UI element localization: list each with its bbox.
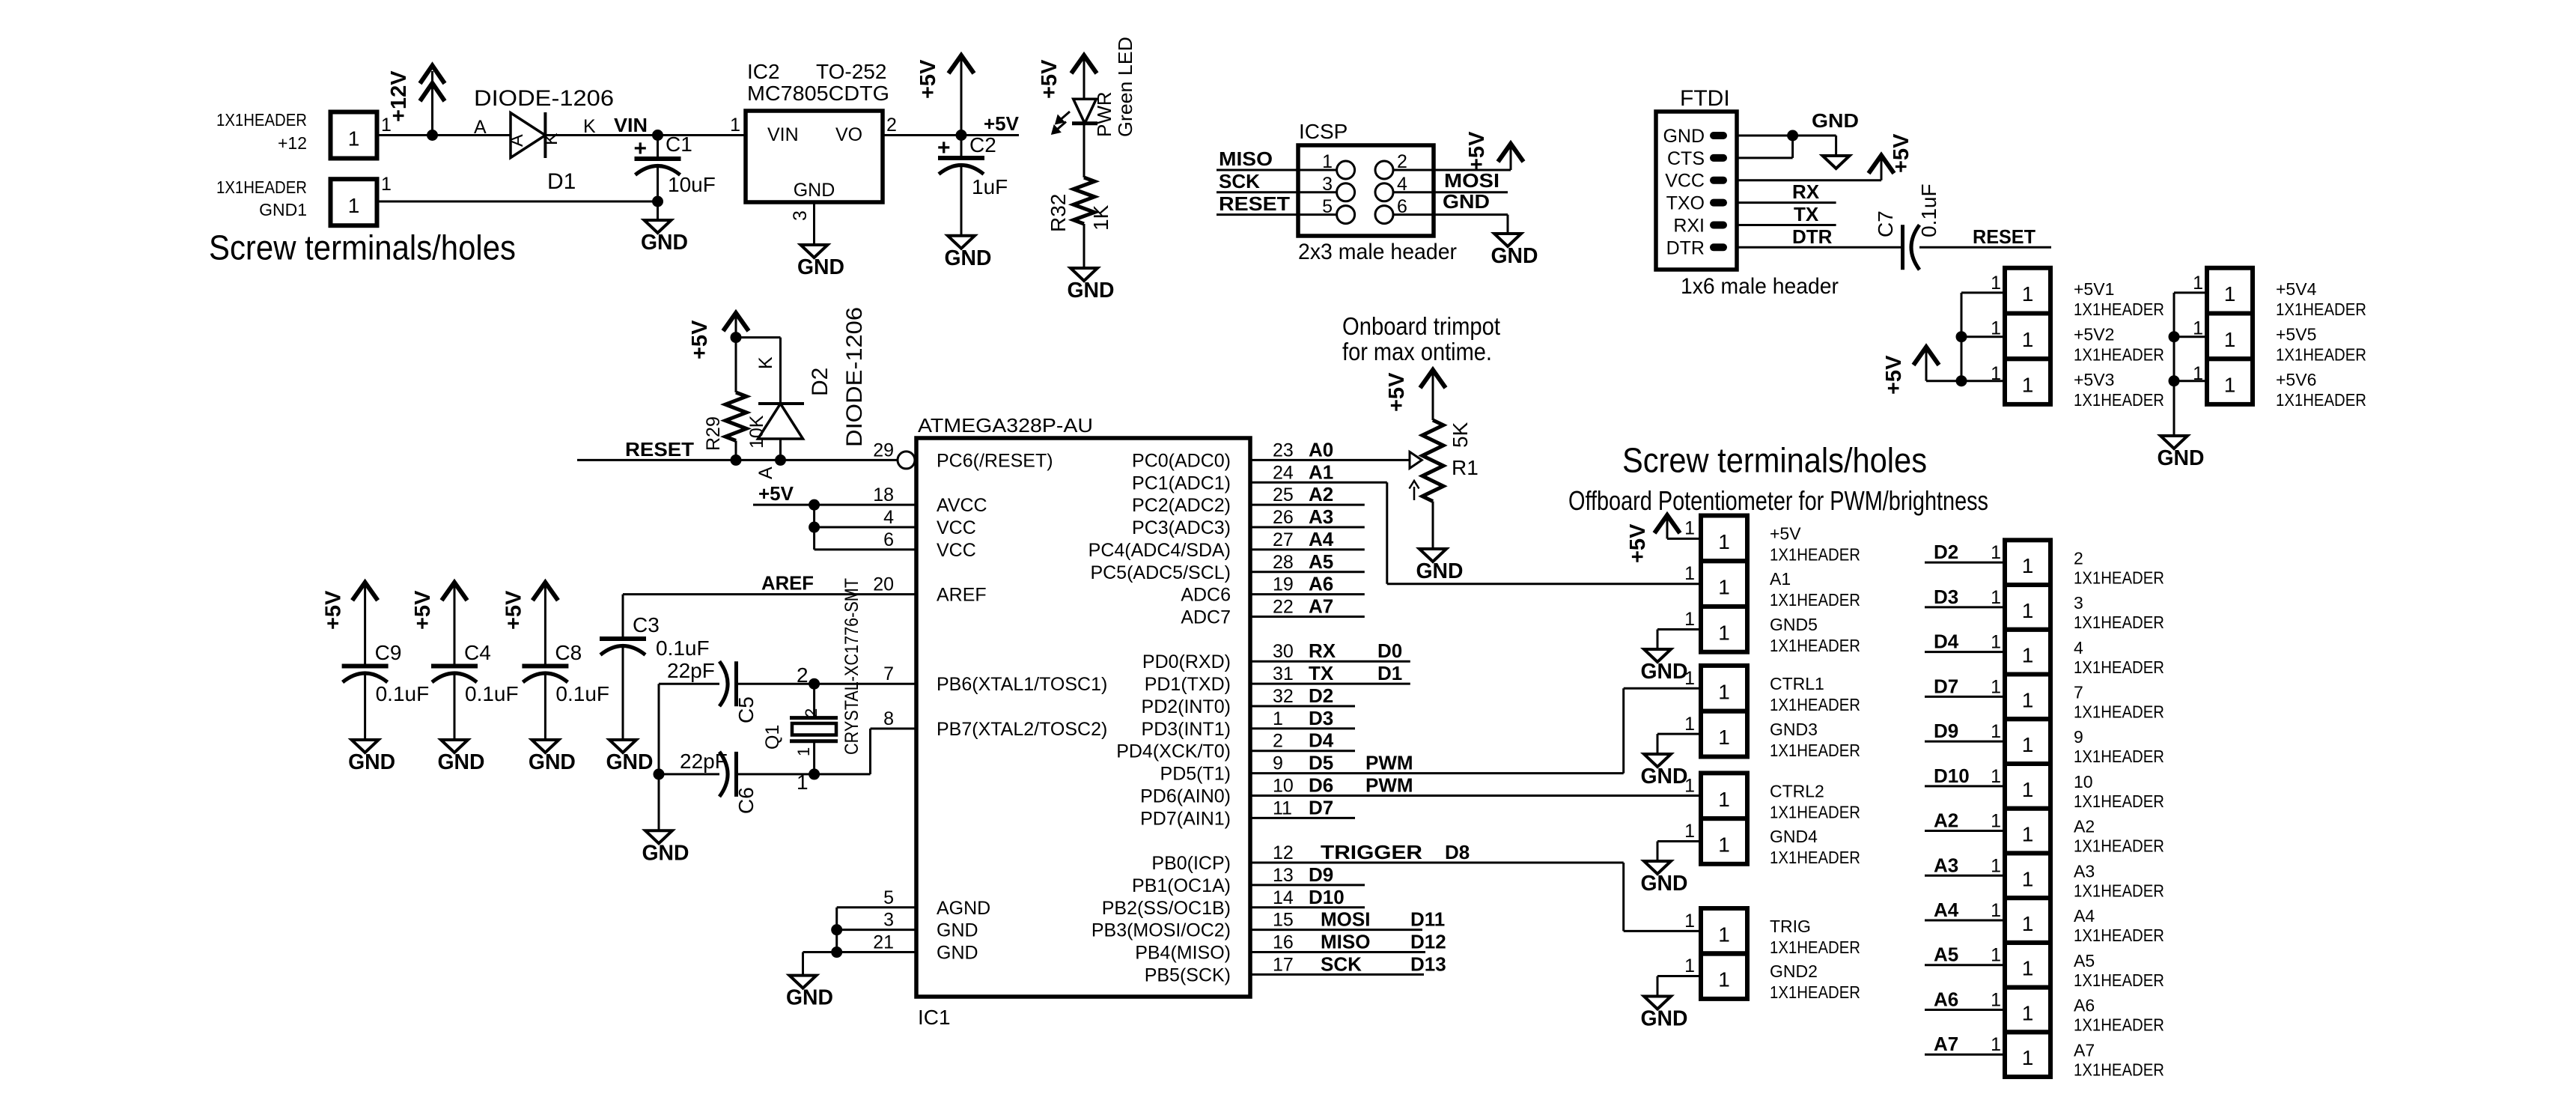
svg-text:AGND: AGND	[937, 898, 990, 919]
wire stub SCK D13	[1250, 973, 1424, 976]
svg-text:IC2: IC2	[747, 60, 780, 83]
wire C1 bottom to ground	[657, 201, 659, 220]
ground symbol below R32	[1071, 268, 1097, 281]
supply +5V symbol at screw terminal group 1	[1654, 515, 1680, 533]
svg-text:22pF: 22pF	[680, 750, 728, 773]
svg-text:PC3(ADC3): PC3(ADC3)	[1132, 517, 1231, 538]
svg-text:Offboard Potentiometer for PWM: Offboard Potentiometer for PWM/brightnes…	[1568, 485, 1988, 516]
svg-text:VO: VO	[835, 124, 862, 145]
header +5V2 (1X1HEADER)	[2005, 314, 2050, 359]
wire stub D3	[1250, 727, 1355, 729]
wire stub A3	[1250, 526, 1365, 529]
svg-text:10K: 10K	[746, 415, 767, 449]
svg-text:+5V3: +5V3	[2074, 370, 2114, 389]
ground symbol below C8	[532, 740, 558, 753]
svg-text:0.1uF: 0.1uF	[1917, 183, 1940, 237]
svg-text:GND1: GND1	[259, 200, 307, 219]
svg-text:C9: C9	[375, 641, 402, 664]
wire D4 stub to header	[1925, 651, 2005, 653]
ground symbol below GND4	[1644, 861, 1671, 874]
svg-text:1X1HEADER: 1X1HEADER	[2074, 1060, 2164, 1079]
svg-text:ATMEGA328P-AU: ATMEGA328P-AU	[918, 414, 1093, 437]
R1 adjustment arrow	[1413, 487, 1416, 500]
svg-text:5K: 5K	[1449, 422, 1472, 448]
svg-text:C7: C7	[1874, 210, 1897, 237]
svg-text:A7: A7	[2074, 1040, 2095, 1060]
svg-text:12: 12	[1273, 842, 1294, 863]
svg-text:18: 18	[873, 484, 894, 505]
supply +5V symbol above C8	[532, 583, 558, 601]
wire to ground symbol below IC1 left	[802, 952, 804, 976]
svg-text:PC2(ADC2): PC2(ADC2)	[1132, 495, 1231, 516]
wire D9 stub to header	[1925, 741, 2005, 743]
wire SCK to ICSP pin 3	[1217, 191, 1337, 193]
supply +12V symbol (double chevron)	[420, 66, 445, 84]
svg-text:GND: GND	[438, 750, 485, 774]
ICSP pin circles	[1337, 161, 1355, 179]
svg-text:1: 1	[1991, 318, 2001, 339]
svg-text:1: 1	[1991, 945, 2001, 966]
svg-text:1: 1	[1718, 726, 1730, 749]
svg-text:MISO: MISO	[1219, 148, 1273, 170]
wire D5 PWM to CTRL1 branch	[1250, 772, 1624, 774]
svg-text:1: 1	[1718, 968, 1730, 991]
svg-text:1X1HEADER: 1X1HEADER	[1770, 636, 1860, 655]
svg-text:D12: D12	[1410, 931, 1446, 953]
svg-text:1X1HEADER: 1X1HEADER	[1770, 590, 1860, 610]
svg-text:CTRL2: CTRL2	[1770, 781, 1824, 800]
supply +5V symbol at FTDI	[1869, 156, 1894, 174]
wire A0 to R1 wiper	[1250, 459, 1410, 461]
svg-text:1x6 male header: 1x6 male header	[1681, 274, 1839, 299]
ICSP 2x3 header box	[1298, 145, 1434, 236]
svg-text:10: 10	[1273, 775, 1294, 796]
junction at +5V2 wire	[1956, 331, 1967, 342]
wire +12V node to diode D1 anode	[433, 134, 511, 136]
svg-text:GND: GND	[797, 255, 844, 279]
svg-text:MC7805CDTG: MC7805CDTG	[747, 82, 889, 105]
svg-text:A0: A0	[1309, 438, 1333, 461]
svg-text:SCK: SCK	[1219, 170, 1260, 192]
resistor R29 10K	[735, 338, 737, 392]
svg-text:D5: D5	[1309, 752, 1333, 774]
supply +5V symbol above PWR LED	[1071, 55, 1097, 73]
svg-text:1X1HEADER: 1X1HEADER	[2074, 881, 2164, 900]
diode D2 DIODE-1206 (vertical)	[758, 402, 804, 405]
svg-text:14: 14	[1273, 887, 1294, 908]
svg-text:0.1uF: 0.1uF	[656, 636, 710, 660]
svg-text:1: 1	[1684, 609, 1695, 630]
svg-text:C8: C8	[555, 641, 582, 664]
header +5V6 (1X1HEADER)	[2207, 359, 2253, 404]
svg-text:2: 2	[802, 708, 820, 717]
wire GND1 header to C1 bottom node	[377, 201, 658, 203]
svg-text:GND: GND	[937, 920, 978, 941]
wire IC2 VO to +5V net	[883, 134, 1019, 136]
svg-text:11: 11	[1273, 797, 1292, 818]
svg-text:A6: A6	[2074, 996, 2095, 1015]
svg-text:DTR: DTR	[1666, 237, 1705, 258]
svg-text:1X1HEADER: 1X1HEADER	[1770, 848, 1860, 867]
svg-text:3: 3	[2074, 593, 2083, 613]
wire FTDI RXI / TX	[1737, 224, 1836, 226]
wire R1 bottom to ground	[1432, 502, 1434, 550]
header +5V5 (1X1HEADER)	[2207, 314, 2253, 359]
svg-text:MISO: MISO	[1321, 931, 1370, 953]
svg-text:DIODE-1206: DIODE-1206	[842, 307, 867, 447]
svg-text:1: 1	[794, 747, 813, 756]
svg-text:D8: D8	[1445, 841, 1470, 863]
supply +5V symbol above R29	[723, 313, 749, 331]
svg-text:1uF: 1uF	[972, 175, 1008, 198]
svg-text:RESET: RESET	[1219, 192, 1290, 215]
svg-text:+5V1: +5V1	[2074, 279, 2114, 299]
wire crystal node up to PB7 pin 8	[869, 729, 871, 774]
capacitor C4 0.1uF	[431, 664, 478, 669]
svg-text:1X1HEADER: 1X1HEADER	[2074, 613, 2164, 632]
ground symbol at ICSP	[1494, 234, 1521, 246]
svg-text:PD5(T1): PD5(T1)	[1160, 764, 1231, 785]
junction VIN node at C1	[652, 130, 663, 141]
wire AREF down to C3	[622, 595, 624, 639]
wire stub A2	[1250, 504, 1365, 506]
svg-text:PD7(AIN1): PD7(AIN1)	[1140, 808, 1231, 829]
supply +5V symbol for +5V1-3 group	[1913, 347, 1939, 365]
svg-text:D7: D7	[1309, 796, 1333, 818]
svg-text:AREF: AREF	[761, 572, 814, 595]
wire stub MOSI D11	[1250, 929, 1422, 931]
svg-text:1: 1	[1991, 989, 2001, 1010]
wire stub A5	[1250, 571, 1365, 573]
svg-text:24: 24	[1273, 462, 1294, 483]
wire stub D4	[1250, 750, 1355, 752]
svg-text:17: 17	[1273, 954, 1294, 975]
svg-text:1: 1	[2193, 363, 2203, 384]
ground symbol below C2	[948, 236, 975, 249]
svg-text:1: 1	[1991, 587, 2001, 608]
svg-text:4: 4	[883, 507, 894, 528]
wire FTDI TXO / RX	[1737, 201, 1836, 204]
header GND2 (1X1HEADER)	[1701, 953, 1747, 999]
wire C5/C6 ground bus	[658, 684, 660, 774]
svg-text:K: K	[583, 116, 596, 137]
junction FTDI GND/CTS	[1787, 130, 1798, 142]
svg-text:3: 3	[883, 910, 894, 931]
svg-text:1X1HEADER: 1X1HEADER	[2074, 747, 2164, 766]
svg-text:1: 1	[797, 771, 809, 794]
svg-text:1X1HEADER: 1X1HEADER	[1770, 545, 1860, 565]
svg-text:RX: RX	[1309, 639, 1336, 662]
junction GND pin3	[831, 924, 842, 935]
svg-text:GND4: GND4	[1770, 827, 1818, 846]
svg-text:GND: GND	[1663, 126, 1705, 147]
svg-text:1: 1	[1718, 621, 1730, 644]
svg-text:D4: D4	[1309, 729, 1334, 752]
svg-text:1X1HEADER: 1X1HEADER	[2074, 390, 2164, 410]
junction +5V/VCC branch	[809, 499, 820, 511]
svg-text:PB2(SS/OC1B): PB2(SS/OC1B)	[1102, 898, 1231, 919]
header JGND1 (1X1HEADER GND1) screw terminal	[331, 179, 377, 225]
svg-text:D9: D9	[1934, 720, 1958, 742]
svg-text:A5: A5	[1934, 944, 1958, 966]
svg-text:RESET: RESET	[1973, 225, 2035, 248]
svg-text:PD6(AIN0): PD6(AIN0)	[1140, 786, 1231, 806]
svg-text:A: A	[506, 134, 527, 147]
svg-text:PB4(MISO): PB4(MISO)	[1135, 943, 1231, 964]
svg-text:Screw terminals/holes: Screw terminals/holes	[1622, 440, 1927, 479]
svg-text:GND: GND	[945, 246, 992, 270]
ground symbol below GND5	[1644, 649, 1671, 662]
svg-text:1X1HEADER: 1X1HEADER	[2276, 345, 2366, 365]
inversion circle at IC1 pin 29	[898, 452, 915, 469]
svg-text:1: 1	[2022, 867, 2034, 890]
svg-text:A3: A3	[2074, 861, 2095, 881]
svg-text:GND: GND	[1641, 765, 1688, 789]
svg-text:D2: D2	[808, 368, 832, 396]
svg-text:7: 7	[2074, 682, 2083, 702]
svg-text:2: 2	[886, 115, 897, 136]
svg-text:A7: A7	[1309, 595, 1333, 617]
svg-text:1: 1	[1273, 708, 1283, 729]
junction at +5V3 wire	[1956, 375, 1967, 386]
wire +5V to +5V header	[1667, 538, 1701, 540]
header GND3 (1X1HEADER)	[1701, 711, 1747, 757]
svg-text:19: 19	[1273, 574, 1294, 595]
wire stub RX D0	[1250, 660, 1410, 663]
header 4 (1X1HEADER) in right column	[2005, 630, 2050, 675]
junction crystal pin2 node	[809, 678, 820, 690]
wire FTDI VCC to +5V	[1737, 179, 1881, 181]
svg-text:PD3(INT1): PD3(INT1)	[1142, 719, 1231, 740]
svg-text:A1: A1	[1770, 569, 1791, 589]
svg-text:31: 31	[1273, 663, 1294, 684]
svg-text:D10: D10	[1309, 886, 1345, 908]
svg-text:GND: GND	[641, 231, 688, 255]
svg-text:IC1: IC1	[918, 1006, 951, 1029]
svg-text:+5V2: +5V2	[2074, 325, 2114, 344]
svg-text:1X1HEADER: 1X1HEADER	[2074, 702, 2164, 721]
svg-text:PC4(ADC4/SDA): PC4(ADC4/SDA)	[1088, 540, 1231, 561]
ground symbol below C1	[645, 220, 672, 233]
wire TRIGGER D8 to TRIG branch	[1250, 862, 1624, 864]
svg-text:GND: GND	[642, 841, 689, 865]
capacitor C6 22pF	[719, 752, 728, 797]
svg-text:PD2(INT0): PD2(INT0)	[1142, 696, 1231, 717]
svg-text:+5V: +5V	[984, 112, 1020, 135]
wire +5V to header group bus	[1926, 380, 1961, 382]
svg-text:for max ontime.: for max ontime.	[1342, 338, 1492, 365]
svg-text:1: 1	[1991, 676, 2001, 697]
svg-text:Screw terminals/holes: Screw terminals/holes	[209, 228, 516, 267]
svg-text:A2: A2	[2074, 817, 2095, 836]
svg-text:Onboard trimpot: Onboard trimpot	[1342, 312, 1500, 340]
wire A1 net from IC1 to A1 header	[1250, 481, 1387, 484]
bus wire for +5V4-6 group	[2173, 293, 2175, 436]
svg-text:PWM: PWM	[1365, 752, 1413, 774]
svg-text:1X1HEADER: 1X1HEADER	[2074, 926, 2164, 945]
wire GND2 header to ground	[1657, 975, 1701, 977]
svg-text:C5: C5	[734, 696, 758, 723]
svg-text:1X1HEADER: 1X1HEADER	[2074, 657, 2164, 677]
wire GND5 header to ground	[1657, 628, 1701, 631]
ground symbol below C3	[609, 740, 636, 753]
svg-text:GND: GND	[794, 180, 835, 201]
wire C6 to crystal pin1 node	[737, 773, 871, 775]
svg-text:16: 16	[1273, 932, 1294, 953]
junction +5V node above C2	[956, 130, 967, 141]
junction D2/RESET	[775, 455, 786, 466]
svg-text:1: 1	[2224, 282, 2236, 306]
ground symbol below R1	[1419, 549, 1446, 562]
wire GND3 header to ground	[1657, 733, 1701, 735]
svg-text:A: A	[474, 117, 487, 138]
svg-text:1: 1	[1718, 788, 1730, 811]
svg-text:PWM: PWM	[1365, 774, 1413, 796]
wire D10 stub to header	[1925, 785, 2005, 787]
svg-text:A5: A5	[2074, 951, 2095, 970]
svg-text:AVCC: AVCC	[937, 495, 987, 516]
header 9 (1X1HEADER) in right column	[2005, 719, 2050, 764]
capacitor C7 0.1uF	[1901, 225, 1904, 270]
svg-text:RESET: RESET	[625, 438, 694, 461]
svg-text:GND2: GND2	[1770, 961, 1818, 981]
wire D1 cathode to VIN node	[545, 134, 657, 136]
FTDI 1x6 header box	[1656, 112, 1737, 270]
junction crystal pin1 node	[809, 768, 820, 780]
svg-text:1X1HEADER: 1X1HEADER	[2276, 300, 2366, 319]
ground symbol below C9	[352, 740, 379, 753]
svg-text:1: 1	[1991, 273, 2001, 294]
svg-text:+5V5: +5V5	[2276, 325, 2316, 344]
svg-text:+5V6: +5V6	[2276, 370, 2316, 389]
svg-text:PC6(/RESET): PC6(/RESET)	[937, 450, 1053, 471]
svg-text:PWR: PWR	[1093, 91, 1115, 137]
IC IC1 ATMEGA328P-AU body	[916, 438, 1250, 997]
svg-text:1: 1	[1991, 900, 2001, 921]
svg-text:1: 1	[2022, 374, 2034, 397]
svg-text:PB5(SCK): PB5(SCK)	[1145, 964, 1231, 985]
svg-text:A6: A6	[1934, 988, 1958, 1010]
wire CTRL1 from D5 PWM	[1624, 687, 1701, 690]
svg-text:GND: GND	[1641, 872, 1688, 896]
svg-text:3: 3	[790, 210, 811, 221]
svg-text:9: 9	[2074, 727, 2083, 747]
svg-text:1: 1	[2022, 957, 2034, 980]
svg-text:ICSP: ICSP	[1299, 120, 1348, 143]
svg-text:A2: A2	[1309, 483, 1333, 505]
svg-text:1: 1	[2022, 733, 2034, 756]
svg-text:2: 2	[1273, 731, 1283, 752]
svg-text:1X1HEADER: 1X1HEADER	[2074, 300, 2164, 319]
svg-text:7: 7	[883, 663, 894, 684]
svg-text:+5V: +5V	[502, 590, 526, 630]
wire +12 header to +12V node	[377, 134, 433, 136]
wire A7 stub to header	[1925, 1054, 2005, 1056]
svg-text:1K: 1K	[1089, 204, 1112, 231]
wire VIN node to IC2 pin 1	[658, 134, 746, 136]
wire A4 stub to header	[1925, 920, 2005, 922]
svg-text:PD1(TXD): PD1(TXD)	[1145, 674, 1231, 695]
svg-text:A7: A7	[1934, 1033, 1958, 1055]
junction +12V node	[427, 130, 438, 141]
svg-text:1: 1	[2022, 912, 2034, 935]
header GND5 (1X1HEADER)	[1701, 607, 1747, 652]
supply +5V symbol above C9	[353, 583, 378, 601]
svg-text:26: 26	[1273, 507, 1294, 528]
svg-text:1: 1	[2022, 554, 2034, 577]
svg-text:+5V: +5V	[758, 482, 794, 505]
svg-text:PB7(XTAL2/TOSC2): PB7(XTAL2/TOSC2)	[937, 719, 1107, 740]
svg-text:2: 2	[797, 663, 809, 687]
header TRIG (1X1HEADER)	[1701, 908, 1747, 954]
wire to VCC pin 4	[814, 526, 916, 529]
svg-text:A2: A2	[1934, 809, 1958, 832]
svg-text:1: 1	[2022, 282, 2034, 306]
svg-text:D0: D0	[1377, 639, 1402, 662]
svg-text:1: 1	[1991, 363, 2001, 384]
svg-text:+5V: +5V	[411, 590, 435, 630]
svg-text:TX: TX	[1794, 203, 1819, 225]
svg-text:+: +	[937, 136, 951, 160]
svg-text:1: 1	[2193, 318, 2203, 339]
header GND4 (1X1HEADER)	[1701, 818, 1747, 864]
diode D1 DIODE-1206	[511, 113, 545, 158]
svg-text:15: 15	[1273, 910, 1294, 931]
svg-text:8: 8	[883, 708, 894, 729]
svg-text:D9: D9	[1309, 863, 1333, 886]
header 10 (1X1HEADER) in right column	[2005, 764, 2050, 809]
svg-text:PC0(ADC0): PC0(ADC0)	[1132, 450, 1231, 471]
svg-text:A3: A3	[1309, 505, 1333, 528]
svg-text:Q1: Q1	[762, 725, 783, 750]
crystal Q1 CRYSTAL-XC1776-SMT	[813, 684, 815, 717]
svg-text:1: 1	[1684, 668, 1695, 689]
svg-text:32: 32	[1273, 686, 1294, 707]
ground symbol below GND3	[1644, 754, 1671, 767]
svg-text:1: 1	[2022, 328, 2034, 351]
svg-text:CRYSTAL-XC1776-SMT: CRYSTAL-XC1776-SMT	[841, 578, 862, 755]
wire +5V to AVCC pin 18	[753, 504, 916, 506]
wire A6 stub to header	[1925, 1009, 2005, 1011]
svg-text:+12V: +12V	[387, 70, 411, 122]
svg-text:0.1uF: 0.1uF	[465, 682, 519, 705]
svg-text:21: 21	[873, 932, 894, 953]
svg-text:1X1HEADER: 1X1HEADER	[1770, 695, 1860, 714]
svg-text:1: 1	[348, 127, 360, 151]
svg-text:1X1HEADER: 1X1HEADER	[2074, 1015, 2164, 1035]
svg-text:1X1HEADER: 1X1HEADER	[2074, 345, 2164, 365]
svg-text:+5V4: +5V4	[2276, 279, 2317, 299]
wire AGND pin 5	[837, 906, 916, 908]
wire FTDI GND pin to junction	[1737, 135, 1793, 137]
svg-text:AREF: AREF	[937, 585, 987, 606]
capacitor C2 1uF	[960, 136, 963, 159]
svg-text:CTRL1: CTRL1	[1770, 674, 1824, 693]
svg-text:1X1HEADER: 1X1HEADER	[2074, 791, 2164, 811]
svg-text:K: K	[755, 356, 776, 369]
svg-text:1: 1	[1684, 563, 1695, 584]
supply +5V symbol above C4	[442, 583, 467, 601]
svg-text:PC5(ADC5/SCL): PC5(ADC5/SCL)	[1090, 562, 1231, 583]
svg-text:D13: D13	[1410, 952, 1446, 975]
svg-text:C1: C1	[666, 133, 692, 156]
svg-text:1: 1	[1718, 680, 1730, 703]
svg-text:D3: D3	[1309, 707, 1333, 729]
svg-text:1: 1	[1991, 721, 2001, 742]
svg-text:1: 1	[2022, 1046, 2034, 1069]
svg-text:VCC: VCC	[937, 540, 976, 561]
svg-text:25: 25	[1273, 484, 1294, 505]
